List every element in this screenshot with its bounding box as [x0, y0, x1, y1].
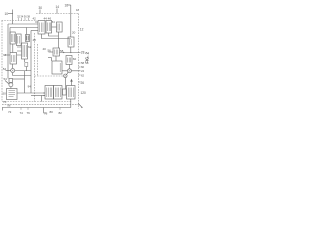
left stub — [2, 108, 4, 111]
svg-text:74: 74 — [20, 111, 24, 115]
svg-text:42: 42 — [33, 17, 37, 21]
small box above osc — [9, 79, 13, 83]
M2 cross — [64, 75, 67, 78]
wire vertical from top label 10 — [12, 10, 14, 25]
wire into M3 from left — [6, 70, 11, 72]
tiny reference labels (drawn as 3px text, will blur) — [3, 4, 87, 116]
svg-text:62: 62 — [81, 73, 85, 77]
box B1b text — [18, 36, 20, 44]
wire into R1 — [52, 26, 57, 28]
box E — [52, 61, 62, 74]
svg-text:40: 40 — [43, 47, 47, 51]
arrow up into mixers — [71, 80, 73, 86]
svg-text:76: 76 — [27, 111, 31, 115]
diagonal M1-M2 — [67, 72, 69, 74]
svg-text:96: 96 — [7, 104, 11, 108]
box H — [7, 89, 18, 100]
wire stub y22 — [35, 21, 38, 23]
svg-text:14: 14 — [56, 5, 60, 9]
box B1 — [10, 32, 15, 44]
dashed border left vertical — [1, 21, 3, 102]
box G — [66, 56, 72, 65]
wire A2 bottom — [49, 33, 59, 36]
dashed inner vertical x34 — [33, 33, 35, 102]
svg-text:82: 82 — [59, 111, 63, 115]
label ticks bottom — [21, 108, 60, 110]
box C text — [27, 36, 29, 41]
wire vertical x24.5 — [24, 71, 26, 93]
wire B1-B2 — [12, 44, 14, 53]
vertical antenna line — [70, 5, 72, 37]
box H text — [9, 91, 16, 97]
dashed bottom inner — [2, 101, 72, 103]
svg-text:12: 12 — [80, 28, 84, 32]
leader label 14 — [56, 9, 58, 14]
wire A1 bottom to right bus — [42, 34, 71, 39]
svg-text:FIG. 2: FIG. 2 — [84, 51, 89, 63]
svg-text:30: 30 — [39, 6, 43, 10]
svg-text:94: 94 — [28, 85, 32, 89]
wire H to I y93 — [17, 92, 45, 94]
wire stub y55 — [5, 54, 10, 56]
box I1 — [45, 86, 54, 100]
wire below label — [25, 67, 27, 72]
wire K down — [70, 99, 72, 108]
label leader x43.7 — [44, 108, 46, 114]
leader diag — [5, 81, 9, 85]
wire drop to box C — [26, 28, 28, 35]
box I1 text — [47, 88, 52, 98]
dashed inner horizontal y76 — [34, 75, 63, 77]
svg-text:50: 50 — [3, 92, 7, 96]
label 64 — [25, 63, 28, 67]
arrowheads into I1 — [44, 92, 45, 96]
svg-text:20: 20 — [72, 31, 76, 35]
wire y70.8 — [62, 70, 81, 72]
box E text — [59, 63, 61, 72]
leader to antenna line — [68, 4, 71, 6]
svg-text:48: 48 — [33, 38, 37, 42]
drop x41.7 — [41, 96, 43, 102]
box D text — [55, 50, 58, 55]
wire bus y27.5 — [10, 27, 38, 29]
label leader ticks top — [18, 18, 28, 21]
arrows into T1 — [17, 47, 22, 55]
box T1 — [22, 43, 28, 59]
wire G down to M1 — [68, 65, 70, 69]
svg-text:56: 56 — [48, 49, 52, 53]
box C small — [26, 35, 30, 42]
svg-text:44: 44 — [44, 17, 48, 21]
svg-text:54: 54 — [4, 77, 8, 81]
box A2 tall — [46, 21, 52, 34]
svg-text:80: 80 — [50, 110, 54, 114]
wire vertical x10 — [9, 28, 11, 53]
svg-text:60: 60 — [73, 57, 77, 61]
wire leader label10 — [8, 13, 13, 15]
svg-text:62: 62 — [28, 45, 32, 49]
box B2 text — [12, 55, 15, 62]
svg-text:10: 10 — [5, 12, 9, 16]
svg-text:46: 46 — [48, 17, 52, 21]
svg-text:16: 16 — [65, 4, 69, 8]
box J — [63, 89, 67, 95]
box F — [68, 37, 74, 47]
arrowhead on out wire — [63, 52, 64, 53]
box R1 text — [58, 24, 60, 31]
box I2 — [54, 86, 63, 100]
wire B2 to M3 — [12, 64, 14, 69]
box A1 text — [40, 23, 43, 33]
wire y79 — [13, 78, 25, 80]
svg-text:26: 26 — [81, 81, 85, 85]
dashed enclosure right-top — [36, 13, 79, 15]
wire M3 right — [15, 70, 31, 72]
wire vertical x31 — [30, 31, 32, 94]
M3 cross — [11, 69, 14, 72]
wire y30 into box — [31, 30, 38, 32]
svg-text:78: 78 — [44, 112, 48, 116]
wire M2 down — [64, 78, 66, 89]
wire T1 down — [24, 59, 26, 62]
box D — [53, 48, 60, 56]
leader diag br — [78, 104, 82, 108]
box A1 tall — [38, 21, 45, 35]
svg-text:70: 70 — [3, 100, 7, 104]
dashed bottom outer — [2, 104, 79, 106]
osc circle — [9, 83, 13, 87]
box B1 text — [11, 34, 14, 42]
leader label 30 — [39, 10, 41, 14]
wire stub left of E — [48, 57, 52, 59]
mixer M2 — [64, 74, 68, 78]
wire vertical x8 — [7, 24, 9, 79]
wire osc to H — [10, 87, 12, 89]
mixer M1 — [68, 69, 72, 73]
dot — [81, 107, 82, 108]
svg-text:18: 18 — [76, 8, 80, 12]
wire bus y24 — [8, 23, 38, 25]
box B2 — [10, 53, 17, 65]
svg-text:72: 72 — [8, 110, 12, 114]
bottom solid line — [2, 107, 71, 109]
box B1b — [17, 34, 22, 46]
wire M3 down — [13, 73, 31, 76]
dashed border right vertical — [78, 14, 80, 109]
M1 cross — [68, 69, 71, 72]
box R1 — [57, 22, 63, 32]
box F text — [70, 39, 72, 45]
svg-text:52: 52 — [3, 67, 7, 71]
wire D to E — [55, 56, 57, 61]
dashed inner vertical x37 — [36, 44, 38, 76]
border ticks right — [79, 63, 81, 82]
svg-text:120: 120 — [81, 91, 87, 95]
junction dot — [70, 52, 71, 53]
wire y95.5 — [31, 95, 45, 97]
wire out to label 28 — [60, 52, 81, 54]
box K text — [68, 88, 73, 98]
box G text — [68, 58, 71, 63]
arrow into D — [49, 51, 54, 53]
box I2 text — [55, 88, 60, 98]
wire R1 down to D — [58, 32, 60, 48]
dashed enclosure left-top — [2, 20, 38, 22]
svg-text:58: 58 — [60, 49, 64, 53]
mixer M3 — [11, 69, 15, 73]
box T1 text — [23, 45, 26, 57]
wire left into E — [51, 58, 53, 62]
box A2 text — [48, 23, 51, 32]
wire F down — [70, 47, 72, 53]
box K — [67, 86, 76, 100]
